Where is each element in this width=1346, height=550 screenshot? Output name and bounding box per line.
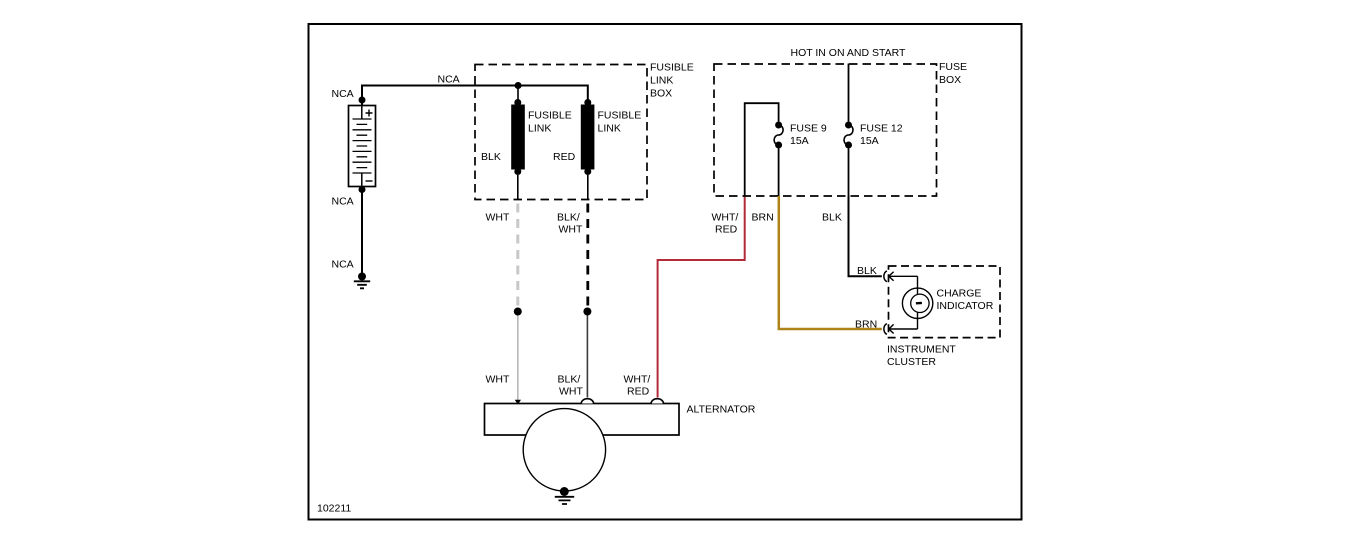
svg-text:15A: 15A — [860, 135, 879, 147]
svg-text:BOX: BOX — [650, 88, 672, 100]
svg-text:WHT/: WHT/ — [712, 212, 739, 224]
diagram border frame — [309, 24, 1022, 520]
svg-text:LINK: LINK — [650, 75, 673, 87]
node BLK/WHT splice — [583, 308, 591, 316]
terminal arrow WHT into alternator — [515, 400, 521, 405]
svg-text:BOX: BOX — [939, 74, 961, 86]
svg-text:INDICATOR: INDICATOR — [937, 300, 994, 312]
label CHARGE INDICATOR — [937, 288, 994, 313]
node WHT splice — [514, 308, 522, 316]
battery — [349, 106, 376, 187]
svg-text:WHT: WHT — [486, 374, 510, 386]
svg-text:WHT: WHT — [559, 224, 583, 236]
svg-text:HOT IN ON AND START: HOT IN ON AND START — [791, 47, 907, 59]
svg-text:BLK/: BLK/ — [557, 212, 580, 224]
wire fusible link 1 to box edge — [517, 175, 519, 200]
svg-text:FUSE 9: FUSE 9 — [790, 123, 827, 135]
svg-text:BRN: BRN — [855, 318, 877, 330]
wire fuse 12 to box bottom — [848, 149, 850, 197]
svg-text:BLK: BLK — [481, 151, 501, 163]
label FUSIBLE LINK BOX — [650, 62, 694, 100]
node fusible link bus junction — [515, 82, 522, 89]
svg-text:NCA: NCA — [332, 259, 354, 271]
svg-text:FUSIBLE: FUSIBLE — [650, 62, 694, 74]
fuse F9 — [774, 122, 783, 149]
alternator rotor circle — [523, 409, 605, 491]
wire hot feed into fuse 12 — [848, 64, 850, 122]
terminal bump BLK/WHT — [581, 399, 593, 404]
fuse box (dashed) — [714, 64, 937, 196]
label FUSE 9 15A — [790, 123, 827, 147]
fuse F12 — [844, 122, 853, 149]
svg-text:15A: 15A — [790, 135, 809, 147]
wire WHT dashed (gray) — [516, 200, 519, 309]
label BLK/WHT (upper) — [557, 212, 583, 236]
svg-text:RED: RED — [715, 224, 738, 236]
svg-text:BRN: BRN — [752, 212, 774, 224]
wire BLK/WHT solid to alternator — [586, 316, 588, 398]
svg-text:RED: RED — [627, 386, 650, 398]
ground (battery) — [354, 273, 370, 289]
fusible link box (dashed) — [475, 65, 647, 200]
svg-text:WHT: WHT — [559, 386, 583, 398]
label BLK/WHT (lower) — [558, 374, 584, 398]
svg-text:FUSE: FUSE — [939, 61, 967, 73]
wire BLK/WHT dashed — [586, 200, 589, 309]
svg-text:FUSIBLE: FUSIBLE — [528, 110, 572, 122]
svg-text:BLK/: BLK/ — [558, 374, 581, 386]
label FUSIBLE LINK (right) — [598, 110, 642, 135]
label INSTRUMENT CLUSTER — [887, 344, 956, 368]
charge indicator bulb — [902, 276, 932, 329]
wire fusible link 2 to box edge — [587, 175, 589, 200]
svg-text:WHT: WHT — [486, 212, 510, 224]
fusible link 1 (BLK) — [511, 99, 525, 175]
wire NCA bus from battery to fusible links — [362, 86, 588, 107]
wire BLK from fuse 12 to instrument cluster — [849, 196, 882, 276]
node battery positive junction — [359, 97, 366, 104]
wire fuse 9 to box bottom — [778, 149, 780, 197]
svg-text:BLK: BLK — [857, 265, 877, 277]
wire BRN from fuse 9 to instrument cluster — [779, 196, 882, 329]
ground (alternator) — [555, 487, 574, 504]
svg-text:NCA: NCA — [438, 74, 460, 86]
svg-text:NCA: NCA — [332, 196, 354, 208]
svg-text:INSTRUMENT: INSTRUMENT — [887, 344, 956, 356]
svg-text:102211: 102211 — [317, 503, 351, 515]
label FUSE BOX — [939, 61, 967, 86]
connector (BRN into cluster) — [884, 324, 918, 335]
label WHT/RED (fuse box) — [712, 212, 739, 236]
wire bus to left fusible link — [517, 86, 519, 100]
svg-text:BLK: BLK — [822, 212, 842, 224]
connector (BLK into cluster) — [884, 271, 918, 282]
alternator body — [485, 404, 680, 436]
svg-text:FUSE 12: FUSE 12 — [860, 123, 903, 135]
wire fuse box left branch — [745, 103, 779, 196]
wire WHT/RED (red) from fuse box to alternator — [658, 196, 745, 398]
wire WHT solid (gray) to alternator — [517, 316, 519, 401]
svg-text:NCA: NCA — [332, 88, 354, 100]
svg-text:LINK: LINK — [598, 123, 621, 135]
svg-text:CLUSTER: CLUSTER — [887, 356, 936, 368]
node battery negative junction — [359, 186, 366, 193]
wire battery negative to ground — [361, 187, 363, 277]
fusible link 2 (RED) — [581, 99, 595, 175]
label WHT/RED (lower) — [624, 374, 651, 398]
svg-text:CHARGE: CHARGE — [937, 288, 982, 300]
svg-text:LINK: LINK — [528, 123, 551, 135]
svg-text:WHT/: WHT/ — [624, 374, 651, 386]
svg-text:RED: RED — [553, 151, 576, 163]
svg-text:ALTERNATOR: ALTERNATOR — [687, 404, 756, 416]
label FUSIBLE LINK (left) — [528, 110, 572, 135]
svg-text:FUSIBLE: FUSIBLE — [598, 110, 642, 122]
terminal bump WHT/RED — [651, 399, 663, 404]
instrument cluster box (dashed) — [889, 266, 1001, 338]
label FUSE 12 15A — [860, 123, 903, 147]
